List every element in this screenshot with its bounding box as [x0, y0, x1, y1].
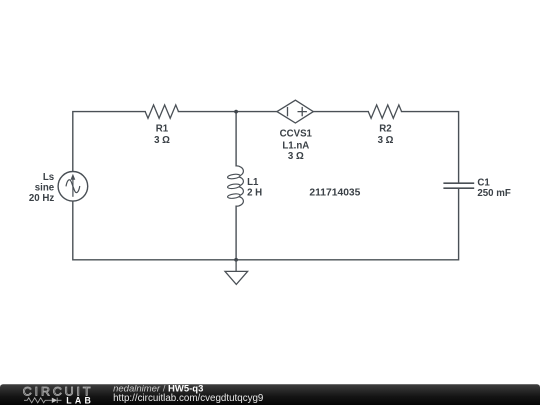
wire top (CCVS1 right to R2) [313, 111, 368, 113]
svg-text:LAB: LAB [66, 395, 94, 405]
ground [225, 271, 248, 284]
wire top-right corner (R2 to C1 top) [402, 112, 459, 184]
logo diode [48, 399, 51, 401]
svg-text:CCVS1: CCVS1 [280, 129, 313, 140]
inductor L1 loop 3 [227, 193, 240, 199]
ground stem [235, 260, 237, 272]
capacitor C1 bottom plate [443, 187, 474, 189]
wire middle branch lower (L1 to bottom node) [235, 206, 237, 260]
dependent source CCVS1 diamond [277, 100, 313, 123]
CCVS1 minus mark [287, 107, 289, 116]
footer bar [0, 384, 540, 405]
CCVS1 plus mark [298, 107, 307, 116]
svg-text:250 mF: 250 mF [477, 188, 510, 199]
svg-text:R1: R1 [156, 124, 169, 135]
node A junction dot (top middle) [234, 110, 238, 114]
svg-text:C1: C1 [477, 177, 490, 188]
inductor L1 loop 2 [227, 183, 240, 189]
logo resistor zigzag [24, 398, 48, 403]
svg-text:2 H: 2 H [247, 188, 262, 199]
wire top (R1 to CCVS1 left) [179, 111, 278, 113]
svg-text:3 Ω: 3 Ω [288, 151, 304, 162]
resistor R1 [145, 105, 178, 118]
node B junction dot (bottom middle) [234, 258, 238, 262]
capacitor C1 top plate [443, 182, 474, 184]
svg-text:3 Ω: 3 Ω [378, 135, 394, 146]
resistor R2 [368, 105, 401, 118]
svg-text:R2: R2 [379, 124, 391, 135]
svg-text:L1.nA: L1.nA [282, 140, 309, 151]
inductor L1 coil spine [236, 166, 243, 206]
voltage source Ls (sine source circle) [58, 172, 88, 202]
svg-text:211714035: 211714035 [309, 188, 360, 199]
voltage source Ls arrow staff [72, 179, 74, 197]
wire top-left corner (source top to R1) [73, 112, 145, 172]
wire bottom-right (bottom node to C1 bottom) [236, 188, 459, 260]
svg-text:20 Hz: 20 Hz [29, 193, 54, 204]
svg-text:sine: sine [35, 182, 55, 193]
inductor L1 loop 1 [227, 174, 240, 180]
svg-text:L1: L1 [247, 177, 259, 188]
svg-text:Ls: Ls [43, 172, 54, 183]
voltage source Ls sine wave [66, 180, 80, 193]
svg-text:3 Ω: 3 Ω [154, 135, 170, 146]
wire bottom-left (source bottom to bottom node) [73, 201, 236, 260]
wire middle branch upper (node A to L1) [235, 112, 237, 166]
voltage source Ls arrowhead [71, 174, 76, 180]
svg-text:http://circuitlab.com/cvegdtut: http://circuitlab.com/cvegdtutqcyg9 [113, 393, 263, 404]
